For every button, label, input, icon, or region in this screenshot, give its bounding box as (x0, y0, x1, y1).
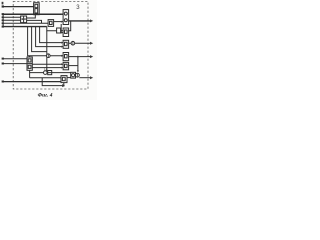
arrowhead into R3 (61, 55, 63, 57)
T2 inner circle lower (64, 19, 67, 22)
wire S1 to T1 (27, 15, 36, 18)
input terminal y63.6 (2, 63, 4, 65)
wire branch x42 down (42, 78, 62, 86)
T2 inner circle upper (64, 12, 67, 15)
arrowhead output y20.9 (90, 19, 93, 22)
arrowhead into T2 lower (61, 21, 63, 23)
block R2 (63, 40, 69, 48)
summer side circle (76, 73, 80, 77)
wire input y17 (2, 16, 20, 18)
input terminal y81.6 (2, 81, 4, 83)
wire T2 down to R1 input (61, 24, 63, 33)
B2 inner mark (62, 77, 65, 80)
wire summer output (79, 77, 91, 79)
wire B2 bottom drop (63, 83, 65, 87)
input terminal y20 (2, 19, 4, 21)
input terminal y14 (2, 13, 4, 15)
block R1 (63, 28, 69, 37)
B1 inner cell lower (28, 65, 31, 68)
arrowhead output y56.6 (90, 55, 93, 58)
wire input y63.6 (2, 63, 27, 65)
R3 inner mark (65, 55, 68, 58)
wire B1 out lower to R4 (32, 67, 63, 69)
arrowhead down into summer (77, 70, 79, 72)
input terminal y6.5 (2, 5, 4, 7)
wire long y14 to block T2 (2, 13, 63, 15)
input terminal y17 (2, 16, 4, 18)
input terminal y26.6 (2, 26, 4, 28)
arrowhead into T2 upper (61, 13, 63, 15)
wire B1 top tie to row55.7 (29, 56, 31, 57)
wire vertical bus drop x27.6 (28, 27, 64, 56)
block T2 (63, 10, 69, 25)
wire R1 output up to y20.9 (69, 21, 71, 31)
S2 inner mark (50, 21, 53, 24)
wire vertical bus drop x31.6 (32, 27, 47, 52)
wire input row y81.6 (2, 81, 61, 83)
block S1 (21, 16, 27, 23)
wire vertical bus drop x39.6 (40, 27, 64, 43)
vertical stub joining left inputs (2, 14, 4, 27)
wire bus y26.6 (2, 26, 47, 28)
arrowhead into R1 (61, 32, 63, 34)
summing circle on row y55.7 (47, 54, 51, 58)
B1 inner cell upper (28, 59, 31, 62)
wire R3 output (69, 56, 91, 58)
wire S1 second output jog (27, 20, 42, 23)
input terminal y58.7 (2, 58, 4, 60)
block B2 (61, 76, 67, 83)
dashed enclosure border (13, 1, 88, 89)
R2 inner mark (65, 42, 68, 45)
wire carrier vertical x46.8 (46, 31, 48, 73)
T1 inner cell top (35, 4, 38, 7)
input terminal y23 (2, 22, 4, 24)
block S2 (48, 20, 54, 27)
wire input y23 continues to block S2 (2, 22, 48, 24)
wire B1 bottom drop (29, 70, 31, 78)
small box on row72.6 (48, 71, 52, 75)
arrowhead output y43.2 (90, 42, 93, 45)
wire vertical x77.9 down to summer (77, 57, 79, 72)
arrowhead into R2 lower (61, 46, 63, 48)
block R4 (63, 62, 69, 69)
wire input y6.5 (2, 6, 33, 8)
wire T2 output (69, 20, 91, 22)
wire S2 to T2 (54, 21, 64, 23)
wire input y20 (2, 19, 20, 21)
cross in side circle (76, 74, 78, 77)
summing circle on R2 output (71, 41, 75, 45)
wire bus corner to S3 (47, 27, 57, 31)
svg-text:3: 3 (76, 5, 80, 11)
arrowhead into R4 upper (61, 63, 63, 65)
wire R2 output (69, 42, 91, 44)
arrowhead into R4 lower (61, 67, 63, 69)
block T1 (34, 3, 40, 15)
cross in circle (72, 42, 74, 45)
arrowhead into R2 upper (61, 42, 63, 44)
junction dot on R3 output (77, 56, 79, 58)
wire input y58.7 (2, 58, 27, 60)
S1 divider (23, 16, 25, 23)
block summer box (71, 72, 76, 78)
summer inner circle (72, 74, 75, 77)
arrowhead output y77.7 (90, 76, 93, 79)
arrowhead row y85.6 (62, 84, 65, 87)
wire row y77.8 (30, 77, 61, 79)
label 1 (top-left) (2, 2, 4, 5)
wire B2 to summer (67, 77, 71, 79)
modulator circle on row72.6 (44, 71, 48, 75)
block S3 (57, 28, 61, 33)
wire S3 to R1 (61, 30, 64, 32)
cross in circle (47, 54, 49, 57)
T1 inner cell (35, 9, 38, 13)
R1 inner mark (65, 30, 68, 33)
wire R4 output to vertical (69, 65, 78, 67)
S1 inner dots (22, 18, 23, 20)
wire B1 out upper to R4 (32, 63, 63, 65)
B1 divider (27, 63, 32, 65)
block R3 (63, 53, 69, 61)
wire row y72.6 (30, 72, 71, 74)
R4 inner mark (65, 64, 68, 67)
block B1 (27, 57, 32, 70)
wire vertical bus drop x35.6 (36, 27, 64, 47)
svg-text:Фиг. 4: Фиг. 4 (38, 93, 53, 99)
